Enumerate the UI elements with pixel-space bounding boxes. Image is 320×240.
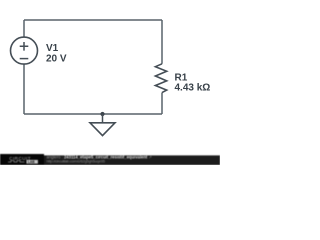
junction node dot on ground net — [100, 112, 104, 116]
resistor R1 zigzag body — [155, 64, 166, 93]
wire right lower (R1 bottom lead) — [161, 93, 163, 114]
wire top (node between V1+ and R1) — [24, 19, 162, 21]
wire bottom (ground net) — [24, 113, 162, 115]
logo waveform — [8, 161, 25, 162]
wire left lower (V1 bottom lead) — [23, 64, 25, 114]
V1 minus sign — [20, 58, 29, 60]
wire right upper (R1 top lead) — [161, 20, 163, 64]
svg-text:LAB: LAB — [28, 160, 35, 164]
svg-text:20 V: 20 V — [46, 53, 67, 64]
footer attribution bar — [0, 154, 220, 165]
voltage source V1 body — [11, 37, 38, 64]
ground triangle symbol — [90, 123, 115, 136]
wire left upper (V1 top lead) — [23, 20, 25, 37]
logo LAB box — [27, 160, 38, 164]
V1 plus sign — [20, 42, 29, 51]
ground stem wire — [102, 114, 104, 123]
CircuitLab logo block — [0, 154, 44, 165]
svg-text:http://circuitlab.com/c/62g5gh: http://circuitlab.com/c/62g5gh5uqe95 — [47, 158, 106, 163]
svg-text:4.43 kΩ: 4.43 kΩ — [175, 83, 211, 94]
